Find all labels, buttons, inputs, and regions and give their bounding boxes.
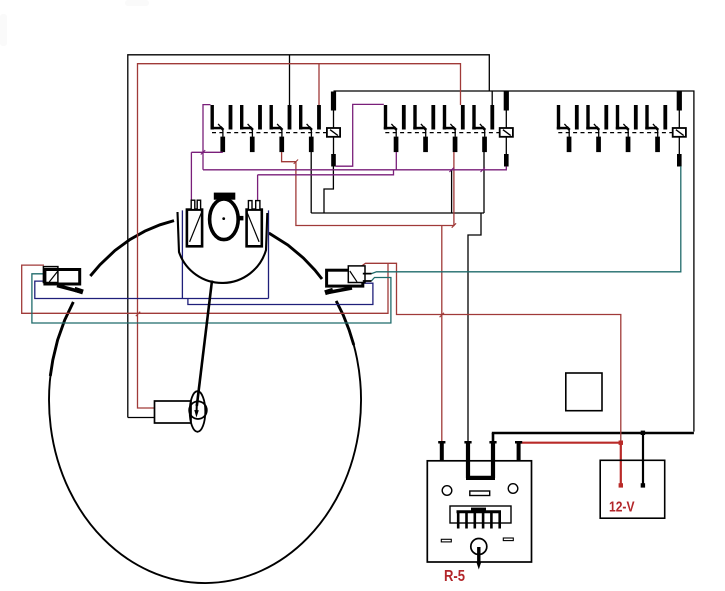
svg-text:R-5: R-5 xyxy=(444,568,465,585)
svg-text:12-V: 12-V xyxy=(609,499,635,516)
